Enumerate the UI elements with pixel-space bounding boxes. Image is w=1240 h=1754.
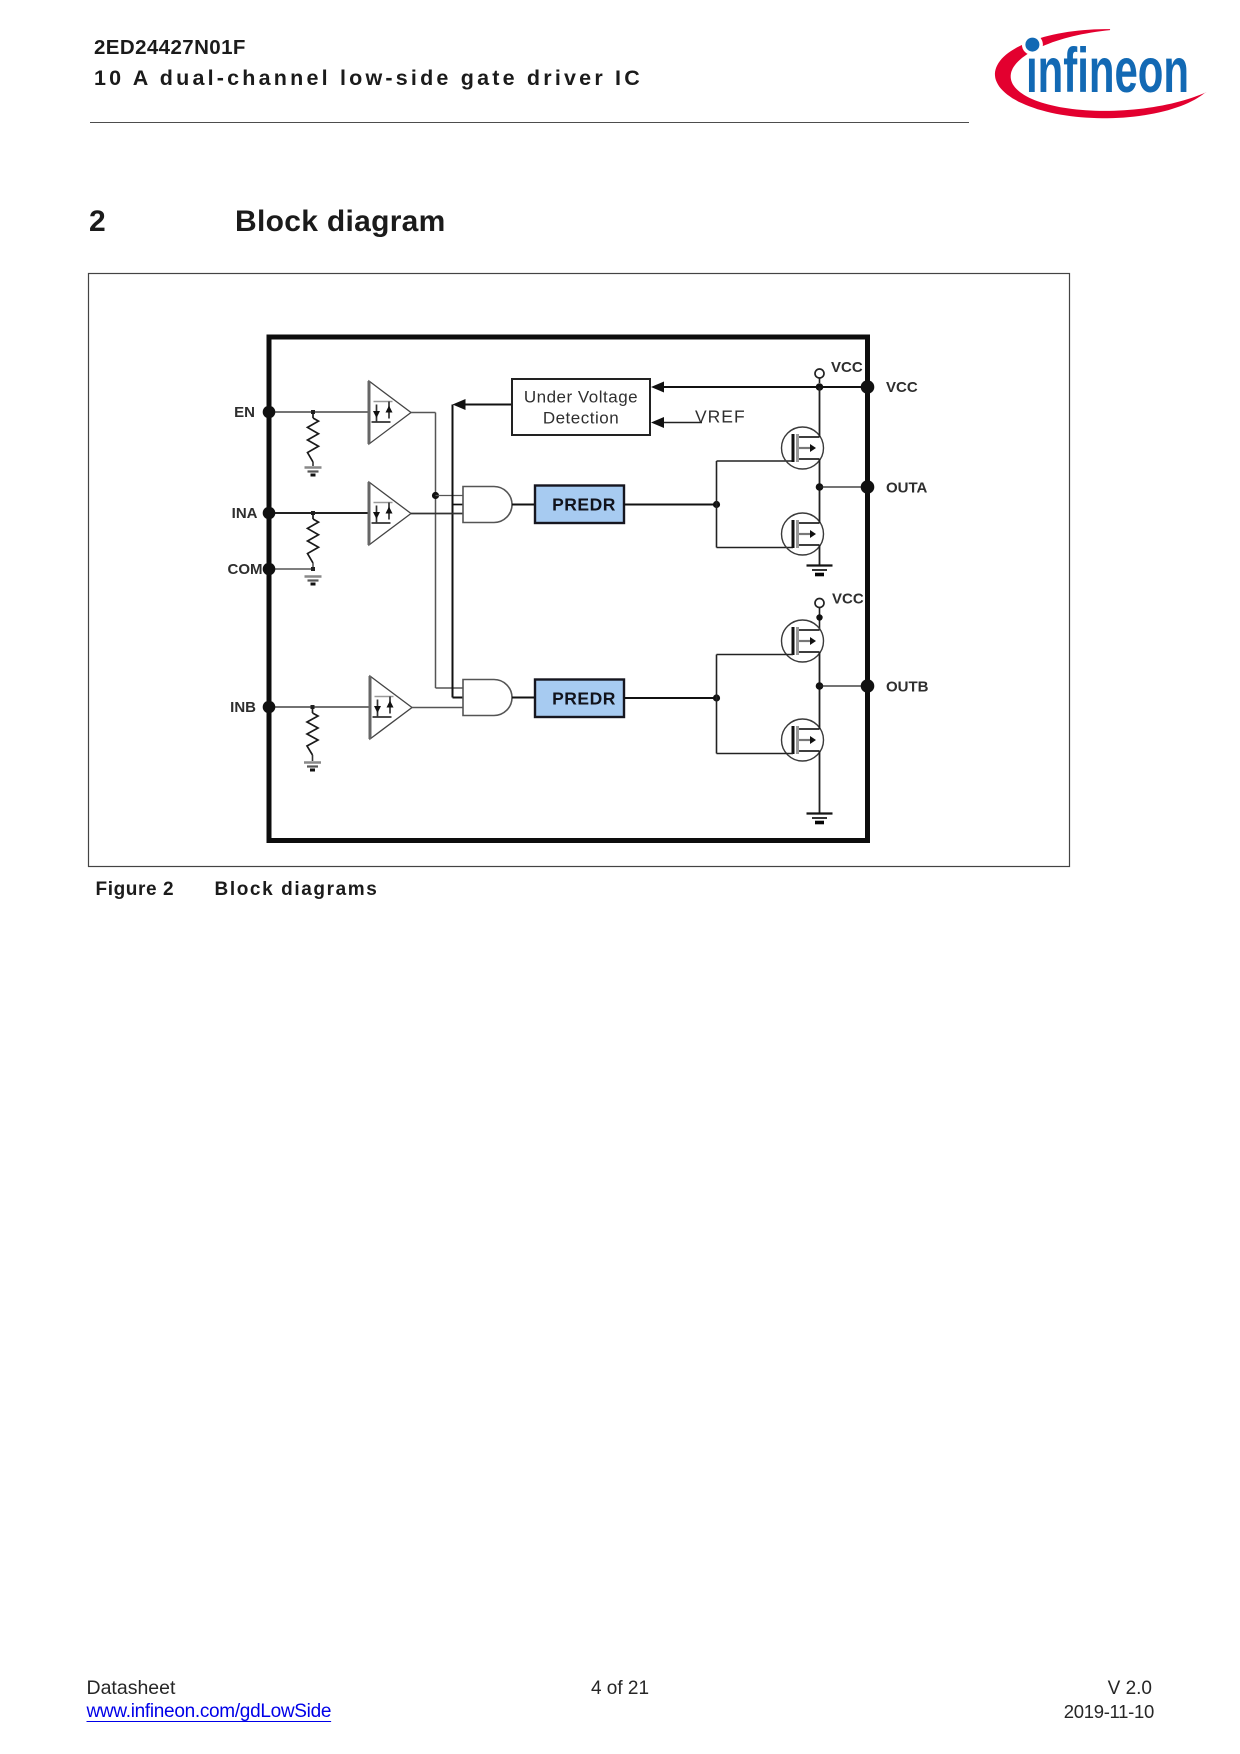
svg-text:VREF: VREF: [695, 407, 746, 427]
svg-text:PREDR: PREDR: [552, 688, 616, 708]
svg-text:Under Voltage: Under Voltage: [524, 388, 638, 407]
svg-text:EN: EN: [234, 404, 255, 421]
svg-text:INB: INB: [230, 699, 256, 716]
svg-text:PREDR: PREDR: [552, 494, 616, 514]
svg-text:COM: COM: [228, 561, 263, 578]
svg-text:VCC: VCC: [831, 359, 863, 376]
svg-text:Detection: Detection: [543, 409, 619, 428]
svg-text:VCC: VCC: [832, 591, 864, 608]
svg-text:VCC: VCC: [886, 379, 918, 396]
svg-text:ınfineon: ınfineon: [1026, 36, 1189, 106]
svg-text:INA: INA: [232, 505, 258, 522]
svg-text:OUTA: OUTA: [886, 480, 928, 497]
svg-text:OUTB: OUTB: [886, 679, 929, 696]
